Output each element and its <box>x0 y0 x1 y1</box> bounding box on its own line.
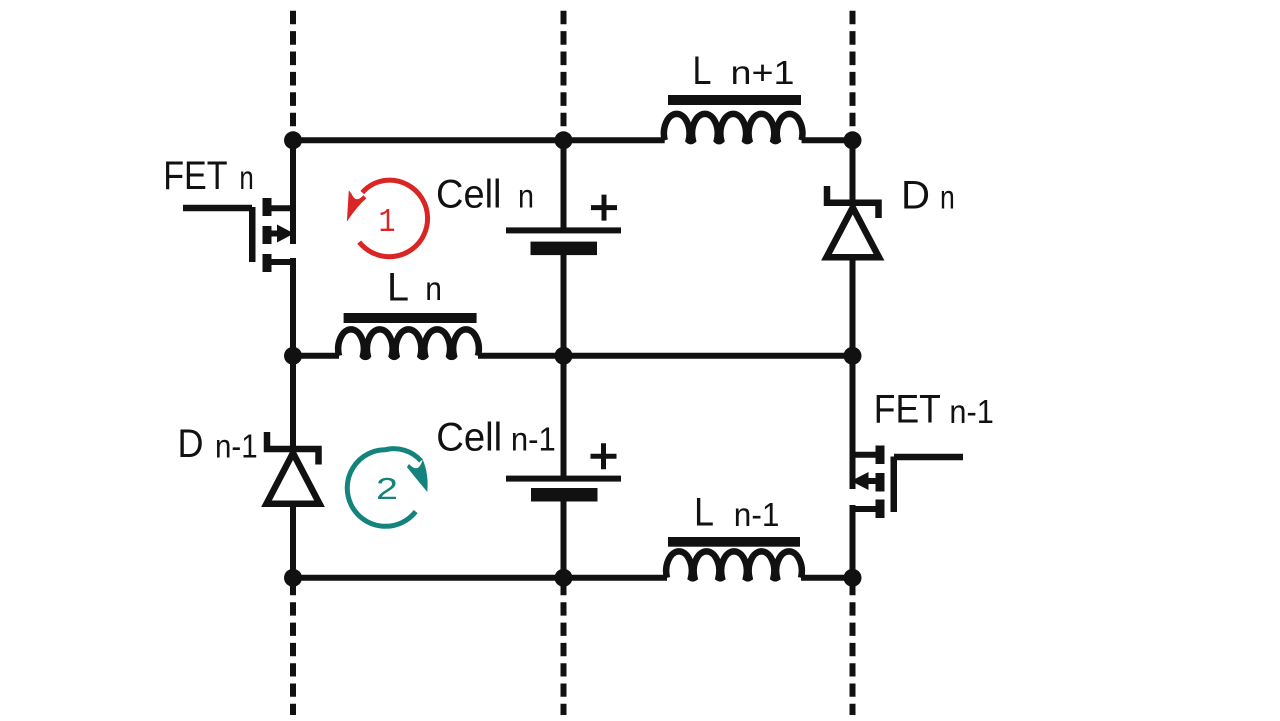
svg-text:FET: FET <box>163 154 227 198</box>
loop 1 arrow (red, counterclockwise) <box>347 180 428 257</box>
Cell n negative plate <box>531 242 598 256</box>
FET n gate lead <box>183 205 252 212</box>
transistor FET n-1 <box>850 446 964 519</box>
FET n source stub <box>271 259 296 265</box>
wire top rail right segment <box>802 137 853 143</box>
wire middle rail left segment <box>293 353 339 359</box>
Cell n-1 plus sign <box>591 443 617 469</box>
FET n channel bar middle <box>263 226 272 244</box>
svg-text:n-1: n-1 <box>734 496 780 533</box>
wire middle vertical: top rail to Cell n <box>561 140 567 228</box>
FET n-1 channel bar top <box>876 446 885 465</box>
FET n channel bar bottom <box>263 254 272 272</box>
FET n-1 source stub <box>850 506 876 512</box>
svg-text:n: n <box>940 178 955 215</box>
wire bottom rail right segment <box>801 575 853 581</box>
inductor L n+1 bar <box>668 95 801 105</box>
bus dashed line right bottom <box>850 582 856 715</box>
FET n-1 channel bar middle <box>876 473 885 492</box>
svg-text:n: n <box>425 270 442 307</box>
bus dashed line left top <box>290 11 296 137</box>
svg-text:L: L <box>693 49 712 93</box>
svg-text:1: 1 <box>379 204 396 241</box>
FET n-1 gate bar <box>891 457 898 513</box>
wire right vertical: top rail to diode Dn <box>850 140 856 201</box>
svg-text:D: D <box>901 173 930 217</box>
junction dot bottom-right <box>844 569 862 587</box>
inductor L n coil <box>338 329 479 357</box>
D n-1 cathode bar <box>267 432 319 465</box>
FET n gate bar <box>249 207 256 262</box>
junction dot top-left <box>284 131 302 149</box>
battery Cell n <box>506 195 621 256</box>
D n-1 anode triangle <box>267 453 320 504</box>
wire left vertical: FET source to middle rail <box>290 258 296 356</box>
FET n-1 body arrow <box>868 478 876 484</box>
FET n-1 gate lead <box>894 454 963 461</box>
svg-text:FET: FET <box>874 388 941 432</box>
svg-text:L: L <box>694 491 714 535</box>
FET n drain stub <box>271 205 296 211</box>
FET n-1 drain stub <box>850 452 876 458</box>
Cell n-1 negative plate <box>531 488 598 502</box>
svg-text:Cell: Cell <box>436 173 502 217</box>
wire middle vertical: Cell n to middle rail <box>561 254 567 356</box>
svg-text:D: D <box>178 422 204 466</box>
inductor L n bar <box>344 313 477 323</box>
junction dot bottom-left <box>284 569 302 587</box>
loop 2 arrow (teal, clockwise) <box>347 449 427 527</box>
junction dot top-mid <box>555 131 573 149</box>
inductor L n+1 coil <box>664 114 803 141</box>
bus dashed line right top <box>850 11 856 137</box>
svg-text:n+1: n+1 <box>731 54 795 91</box>
wire right vertical: FET n-1 source to bottom rail <box>850 505 856 578</box>
junction dot mid-right <box>844 347 862 365</box>
wire middle vertical: middle rail to Cell n-1 <box>561 356 567 477</box>
junction dot bottom-mid <box>555 569 573 587</box>
svg-text:L: L <box>387 266 409 310</box>
FET n body arrow <box>271 231 279 237</box>
svg-text:n-1: n-1 <box>511 420 556 457</box>
bus dashed line mid top <box>561 11 567 137</box>
junction dot top-right <box>844 131 862 149</box>
D n anode triangle <box>827 208 880 258</box>
wire left vertical: diode Dn-1 to bottom rail <box>290 504 296 578</box>
transistor FET n <box>183 198 296 272</box>
wire top rail left segment <box>293 137 665 143</box>
inductor L n-1 coil <box>666 551 802 578</box>
Cell n plus sign <box>591 195 617 221</box>
FET n channel bar top <box>263 198 272 216</box>
svg-text:Cell: Cell <box>436 415 502 459</box>
svg-text:n-1: n-1 <box>949 393 993 430</box>
svg-text:n: n <box>518 178 534 215</box>
Cell n positive plate <box>506 227 621 233</box>
svg-text:n: n <box>239 159 253 196</box>
wire bottom rail left segment <box>293 575 667 581</box>
junction dot mid-mid <box>555 347 573 365</box>
wire right vertical: diode Dn to middle rail <box>850 256 856 356</box>
inductor L n-1 bar <box>668 537 800 547</box>
bus dashed line left bottom <box>290 582 296 715</box>
wire left vertical: top rail to FET drain <box>290 140 296 244</box>
svg-text:n-1: n-1 <box>215 428 258 465</box>
wire middle rail right segment <box>478 353 853 359</box>
junction dot mid-left <box>284 347 302 365</box>
wire left vertical: middle rail to diode Dn-1 <box>290 356 296 450</box>
FET n-1 channel bar bottom <box>876 500 885 519</box>
D n cathode bar <box>827 186 879 218</box>
wire right vertical: middle rail to FET n-1 drain <box>850 356 856 489</box>
battery Cell n-1 <box>506 443 621 501</box>
diode D n-1 <box>267 432 320 504</box>
wire middle vertical: Cell n-1 to bottom rail <box>561 501 567 578</box>
bus dashed line mid bottom <box>561 582 567 715</box>
diode D n <box>827 186 880 257</box>
svg-text:2: 2 <box>376 471 398 506</box>
Cell n-1 positive plate <box>506 476 621 482</box>
